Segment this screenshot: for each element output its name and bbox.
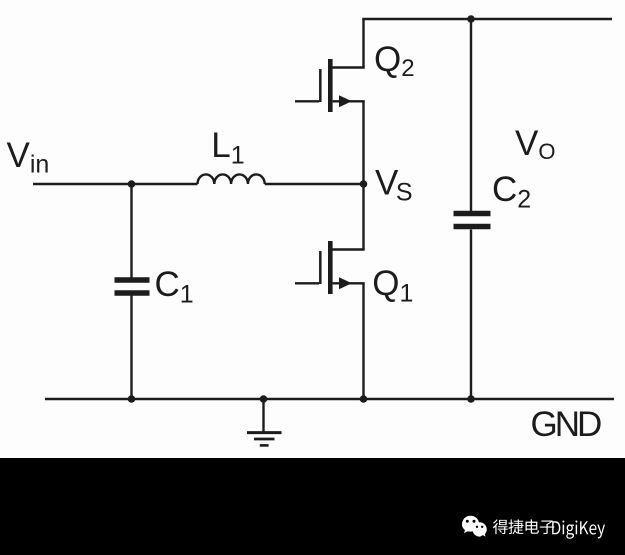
node junction dot ground	[260, 395, 268, 403]
wire C1 branch lower	[130, 296, 132, 400]
capacitor C2	[454, 214, 491, 227]
wire C1 branch upper	[130, 184, 132, 278]
svg-text:VO: VO	[515, 124, 555, 164]
svg-text:C2: C2	[492, 170, 531, 214]
wire Q2 source vertical to VS	[362, 101, 364, 184]
footer brand text DigiKey (glyph outlines)	[552, 521, 605, 539]
node junction dot top rail	[467, 15, 475, 23]
wire Q2 drain vertical	[362, 19, 364, 68]
svg-text:Q1: Q1	[372, 264, 413, 308]
capacitor C1	[115, 280, 150, 293]
wire Q1 source vertical to ground rail	[362, 283, 364, 399]
node junction dot C1 bottom	[128, 395, 136, 403]
node junction dot C2 bottom	[467, 395, 475, 403]
WeChat logo	[462, 516, 487, 537]
svg-text:C1: C1	[155, 265, 194, 309]
wire C2 branch upper	[470, 19, 472, 211]
logo big bubble eyes	[466, 520, 469, 523]
wire top rail	[362, 18, 612, 20]
wire bottom ground rail	[45, 398, 614, 400]
wire Q2 drain horizontal	[330, 66, 365, 68]
node VS junction dot	[360, 180, 368, 188]
transistor Q2	[295, 59, 365, 112]
wire C2 branch lower	[470, 230, 472, 400]
svg-text:L1: L1	[211, 126, 244, 170]
ground	[247, 433, 282, 446]
wire VS to Q1 drain	[362, 184, 364, 250]
svg-text:Vin: Vin	[7, 136, 50, 179]
logo small bubble eyes	[476, 526, 478, 528]
footer brand text Chinese (glyph outlines)	[493, 519, 554, 534]
node junction dot C1 top	[128, 180, 136, 188]
wire ground stem	[262, 399, 264, 432]
transistor Q1	[295, 241, 365, 294]
svg-text:Q2: Q2	[374, 40, 415, 82]
inductor L1	[198, 174, 265, 184]
footer black banner	[0, 458, 625, 555]
svg-text:VS: VS	[375, 164, 413, 207]
wire inductor to VS node	[265, 183, 364, 185]
wire main input Vin to VS	[33, 183, 198, 185]
node junction dot Q1 source	[360, 395, 368, 403]
svg-text:GND: GND	[531, 405, 602, 444]
wire Q1 drain horizontal	[330, 248, 365, 250]
